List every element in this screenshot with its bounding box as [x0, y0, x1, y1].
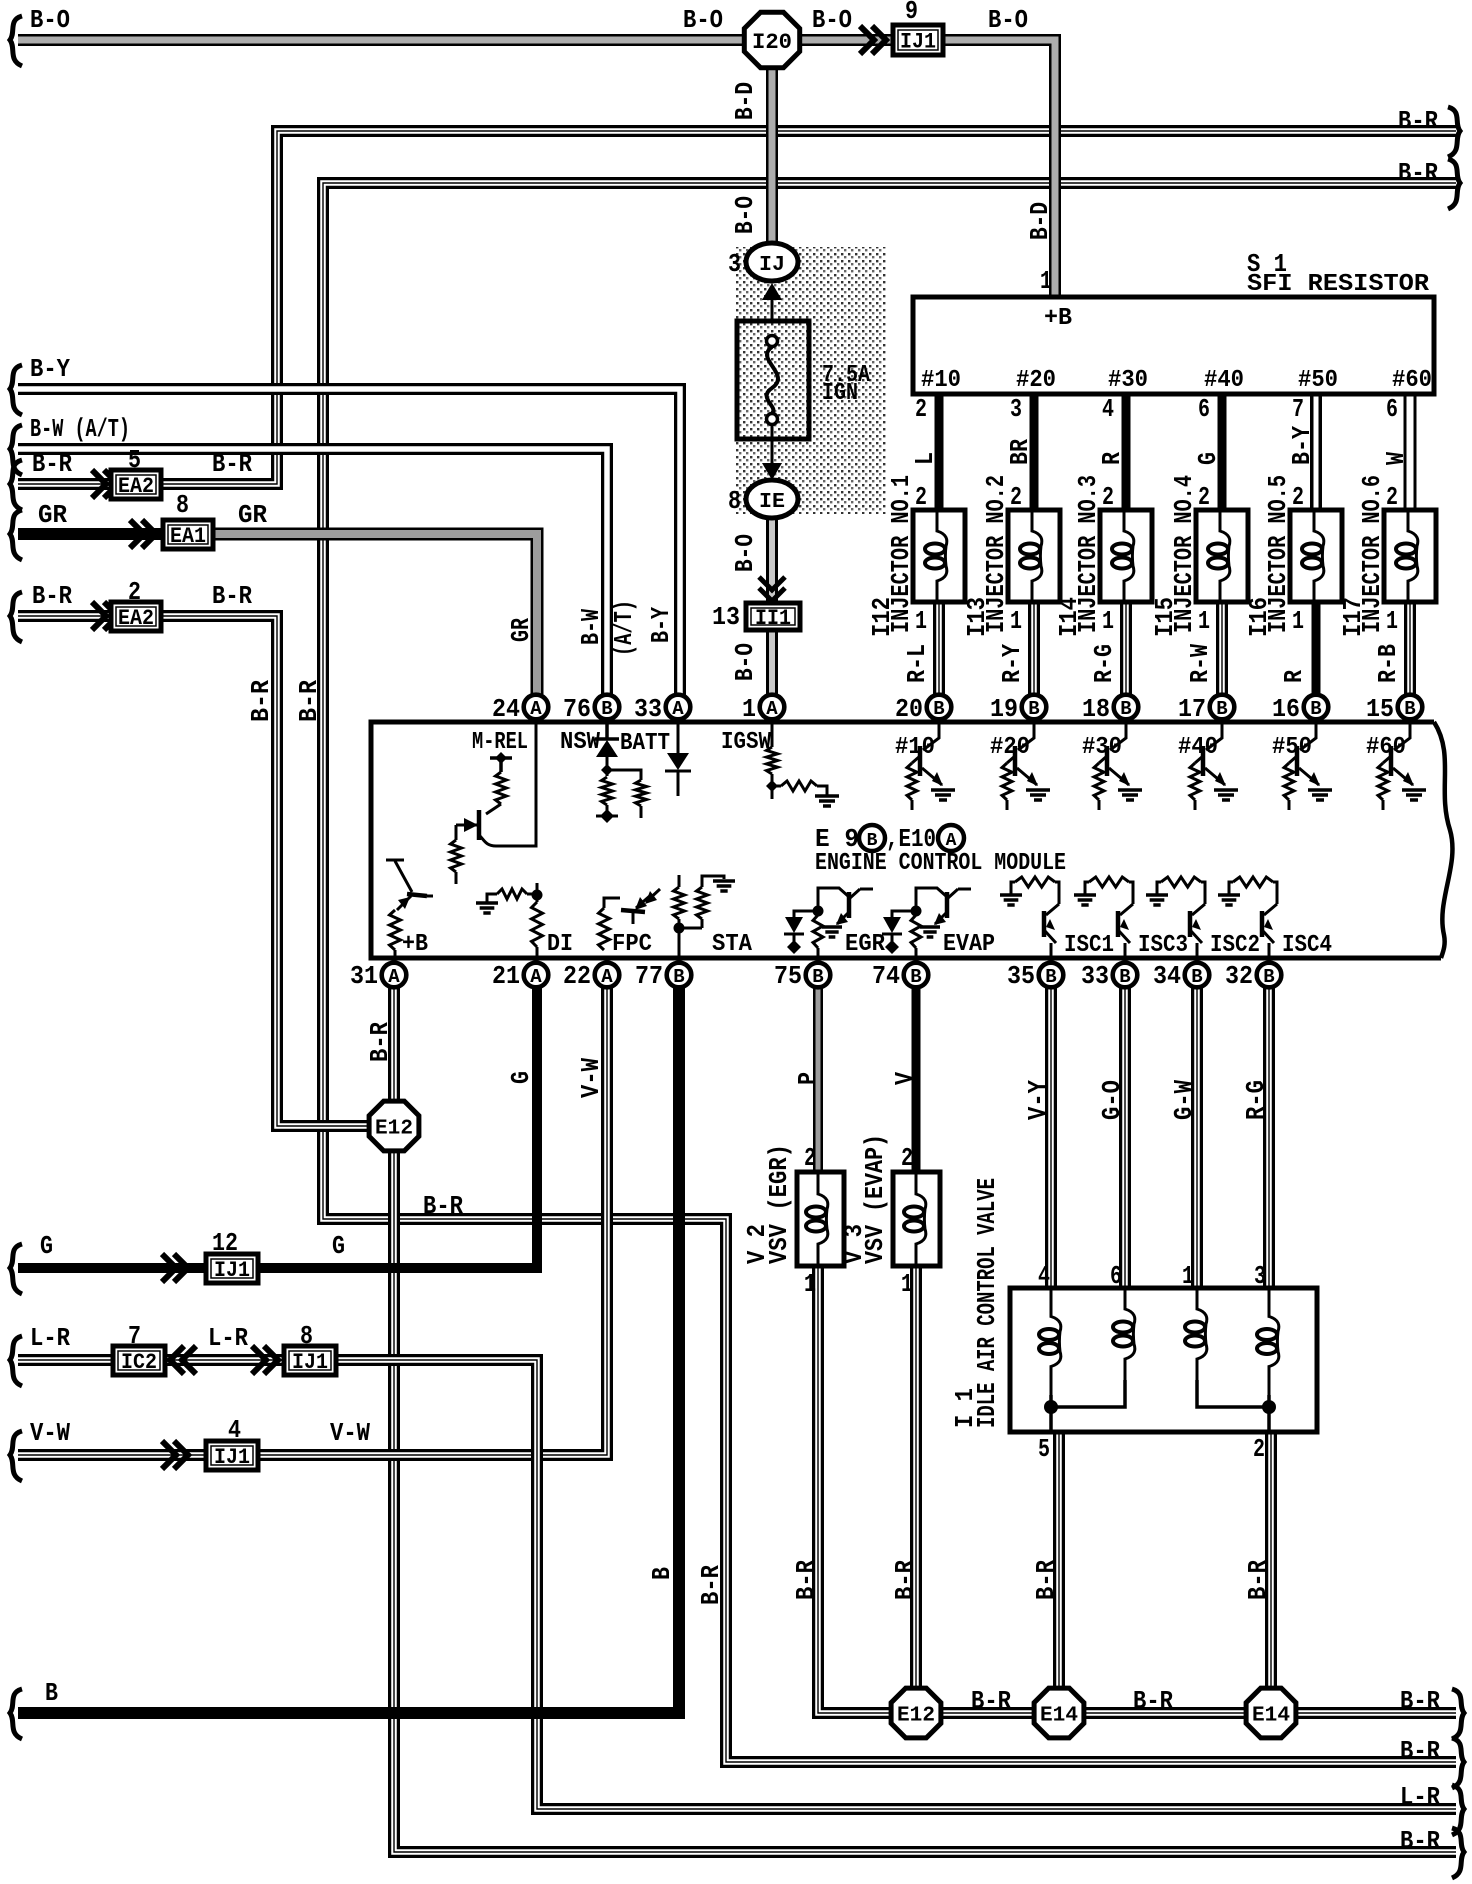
svg-text:INJECTOR NO.4: INJECTOR NO.4	[1169, 475, 1199, 633]
svg-text:G: G	[40, 1231, 53, 1261]
splice E14 (left)	[1034, 1688, 1084, 1738]
svg-text:+B: +B	[402, 931, 428, 958]
svg-text:B-R: B-R	[1243, 1560, 1273, 1600]
svg-text:EA1: EA1	[170, 524, 206, 549]
svg-text:EA2: EA2	[118, 474, 154, 499]
svg-text:B-R: B-R	[1400, 1826, 1440, 1856]
svg-text:2: 2	[1253, 1434, 1265, 1464]
svg-text:33: 33	[634, 694, 662, 724]
svg-text:B: B	[1263, 966, 1274, 988]
svg-text:R-G: R-G	[1241, 1080, 1271, 1120]
svg-text:INJECTOR NO.2: INJECTOR NO.2	[981, 475, 1011, 633]
svg-text:#10: #10	[895, 734, 935, 761]
svg-text:A: A	[530, 698, 542, 720]
connector tail G	[10, 1244, 22, 1294]
svg-text:B-R: B-R	[791, 1560, 821, 1600]
wire R-G injector no.3 to ECM pin 18	[1120, 602, 1132, 697]
svg-text:1: 1	[1292, 606, 1304, 636]
svg-text:#50: #50	[1272, 734, 1312, 761]
svg-text:IJ1: IJ1	[900, 30, 936, 55]
wire R-W injector no.4 to ECM pin 17	[1216, 602, 1228, 697]
wire L injector no.1 feed	[935, 394, 944, 510]
svg-text:B: B	[647, 1567, 677, 1580]
svg-text:2: 2	[915, 394, 927, 424]
svg-text:+B: +B	[1044, 305, 1072, 332]
arrow into IJ1 no.9	[860, 26, 886, 54]
svg-text:B: B	[1216, 698, 1227, 720]
svg-text:35: 35	[1007, 961, 1035, 991]
svg-text:1: 1	[1198, 606, 1210, 636]
svg-text:IGN: IGN	[822, 380, 858, 407]
svg-text:B: B	[1191, 966, 1202, 988]
svg-text:A: A	[601, 966, 613, 988]
svg-text:P: P	[793, 1072, 823, 1085]
svg-text:1: 1	[1102, 606, 1114, 636]
svg-text:1: 1	[804, 1269, 816, 1299]
svg-text:B: B	[1045, 966, 1056, 988]
svg-text:15: 15	[1366, 694, 1394, 724]
svg-text:1: 1	[742, 694, 756, 724]
svg-text:3: 3	[1010, 394, 1022, 424]
svg-text:7: 7	[1292, 394, 1304, 424]
svg-text:A: A	[530, 966, 542, 988]
svg-text:G-W: G-W	[1169, 1080, 1199, 1120]
svg-text:E12: E12	[897, 1705, 935, 1728]
svg-text:77: 77	[635, 961, 663, 991]
svg-text:24: 24	[492, 694, 520, 724]
IACV coil 4	[1269, 1288, 1279, 1395]
svg-text:1: 1	[1386, 606, 1398, 636]
wire V-W from ECM pin 22 to IJ1 no.4	[18, 1449, 206, 1461]
svg-text:B: B	[933, 698, 944, 720]
svg-text:22: 22	[563, 961, 591, 991]
svg-text:INJECTOR NO.5: INJECTOR NO.5	[1263, 475, 1293, 633]
double arrow into II1	[759, 577, 785, 601]
shaded region around IGN fuse	[736, 247, 886, 514]
wire B-R from IACV pin 5 into E14 splice	[1053, 1431, 1065, 1688]
svg-text:B: B	[867, 831, 878, 851]
ECM internal: BATT diode	[677, 724, 680, 753]
wire B-R from ECM pin 31 through E12 to bottom edge	[394, 986, 1456, 1852]
svg-text:R: R	[1097, 452, 1127, 465]
svg-text:B-R: B-R	[212, 449, 252, 479]
svg-text:V-W: V-W	[30, 1418, 70, 1448]
svg-text:B: B	[45, 1678, 58, 1708]
svg-text:13: 13	[712, 602, 740, 632]
svg-text:B-R: B-R	[971, 1686, 1011, 1716]
svg-text:ISC1: ISC1	[1064, 932, 1114, 959]
wire B-R top line 2 (right edge, down left side, to bottom B-R)	[323, 183, 1456, 1762]
wire B-R top line 1 (right edge to EA2 no.5)	[161, 131, 1456, 484]
svg-text:B-R: B-R	[1031, 1560, 1061, 1600]
svg-text:34: 34	[1153, 961, 1181, 991]
svg-text:#20: #20	[990, 734, 1030, 761]
svg-text:B-O: B-O	[812, 5, 852, 35]
wire R injector no.5 to ECM pin 16	[1312, 602, 1321, 697]
svg-text:IE: IE	[759, 491, 785, 514]
svg-text:V-Y: V-Y	[1023, 1080, 1053, 1120]
svg-text:8: 8	[176, 490, 189, 520]
svg-text:20: 20	[895, 694, 923, 724]
wire G-O ECM pin 33 to IACV pin 6	[1119, 986, 1131, 1288]
wire G injector no.4 feed	[1218, 394, 1227, 510]
svg-text:1: 1	[1010, 606, 1022, 636]
wire R injector no.3 feed	[1122, 394, 1131, 510]
svg-text:BR: BR	[1005, 439, 1035, 465]
svg-text:L-R: L-R	[30, 1323, 70, 1353]
wire L-R from IJ1 no.8 down to bottom L-R line	[18, 1354, 113, 1366]
svg-text:G: G	[1193, 452, 1223, 465]
svg-text:8: 8	[728, 486, 741, 516]
svg-text:IC2: IC2	[121, 1350, 157, 1375]
svg-text:IJ: IJ	[759, 254, 785, 277]
svg-text:17: 17	[1178, 694, 1206, 724]
svg-text:3: 3	[728, 249, 741, 279]
wire G from IJ1 no.12 up to ECM pin 21	[18, 1263, 206, 1273]
svg-text:B-O: B-O	[730, 643, 760, 681]
svg-text:INJECTOR NO.1: INJECTOR NO.1	[886, 475, 916, 633]
svg-text:31: 31	[350, 961, 378, 991]
svg-text:B-R: B-R	[212, 581, 252, 611]
injector no.1 I12	[913, 510, 965, 602]
connector tail B-R row 3	[10, 460, 22, 510]
svg-text:#60: #60	[1392, 367, 1432, 394]
wire P from ECM pin 75 to VSV EGR	[813, 986, 823, 1172]
svg-text:G: G	[332, 1231, 345, 1261]
svg-text:IDLE AIR CONTROL VALVE: IDLE AIR CONTROL VALVE	[972, 1178, 1002, 1428]
wire B bottom run to ECM pin 77	[18, 986, 679, 1713]
svg-text:2: 2	[804, 1143, 816, 1173]
wire B-O top run from left through I20 and IJ1 no.9 down to SFI resistor +B	[18, 34, 745, 46]
svg-text:GR: GR	[506, 618, 536, 642]
wire B-R from VSV EGR to E12 splice	[818, 1266, 891, 1713]
svg-text:B-R: B-R	[890, 1560, 920, 1600]
svg-text:#30: #30	[1108, 367, 1148, 394]
svg-text:NSW: NSW	[560, 729, 601, 756]
svg-text:B-W: B-W	[576, 609, 606, 645]
injector no.6 I17	[1384, 510, 1436, 602]
svg-text:B-D: B-D	[1025, 202, 1055, 240]
connector tail B-O top left	[10, 16, 22, 66]
splice E14 (right)	[1246, 1688, 1296, 1738]
svg-text:#60: #60	[1366, 734, 1406, 761]
wire G-W ECM pin 34 to IACV pin 1	[1191, 986, 1203, 1288]
svg-text:18: 18	[1082, 694, 1110, 724]
svg-text:SFI RESISTOR: SFI RESISTOR	[1247, 271, 1430, 298]
svg-text:B-R: B-R	[32, 449, 72, 479]
svg-text:EA2: EA2	[118, 606, 154, 631]
fuse 7.5A IGN box	[737, 321, 809, 439]
engine control module box	[371, 722, 1441, 958]
svg-text:B-O: B-O	[730, 534, 760, 572]
svg-text:ENGINE CONTROL MODULE: ENGINE CONTROL MODULE	[815, 850, 1066, 877]
svg-text:B-R: B-R	[294, 680, 324, 722]
wire R-G ECM pin 32 to IACV pin 3	[1263, 986, 1275, 1288]
svg-text:L-R: L-R	[208, 1323, 248, 1353]
wire V-Y ECM pin 35 to IACV pin 4	[1045, 986, 1057, 1288]
svg-text:EGR: EGR	[845, 931, 886, 958]
wire W injector no.6 feed	[1404, 394, 1417, 510]
svg-text:75: 75	[774, 961, 802, 991]
svg-text:GR: GR	[38, 500, 67, 530]
svg-text:B-O: B-O	[988, 5, 1028, 35]
connector tail GR	[10, 510, 22, 560]
wire B-R from EA2 no.2 down to E12 splice	[18, 610, 111, 622]
wire B-O from IE junction down through II1 to ECM pin 1 IGSW	[766, 517, 778, 697]
injector no.4 I15	[1196, 510, 1248, 602]
svg-text:B-O: B-O	[683, 5, 723, 35]
svg-text:B-Y: B-Y	[1287, 426, 1317, 465]
injector no.2 I13	[1008, 510, 1060, 602]
svg-text:B-R: B-R	[1398, 106, 1438, 136]
svg-text:G-O: G-O	[1097, 1080, 1127, 1120]
svg-text:B-R: B-R	[423, 1191, 463, 1221]
svg-text:R-L: R-L	[902, 644, 932, 683]
IACV coil 2	[1125, 1288, 1135, 1380]
svg-text:B-Y: B-Y	[646, 607, 676, 643]
svg-text:5: 5	[1038, 1434, 1050, 1464]
svg-text:76: 76	[563, 694, 591, 724]
splice E12 (left)	[369, 1101, 419, 1151]
injector no.5 I16	[1290, 510, 1342, 602]
splice E12 (bottom)	[891, 1688, 941, 1738]
splice I20	[744, 12, 799, 67]
wire R-Y injector no.2 to ECM pin 19	[1028, 602, 1040, 697]
wire B-Y injector no.5 feed	[1310, 394, 1322, 510]
svg-text:2: 2	[901, 1143, 913, 1173]
svg-text:L-R: L-R	[1400, 1782, 1440, 1812]
svg-text:INJECTOR NO.3: INJECTOR NO.3	[1073, 475, 1103, 633]
svg-text:L: L	[910, 452, 940, 465]
svg-text:IGSW: IGSW	[721, 729, 772, 756]
arrow into IJ1 no.8	[252, 1346, 278, 1374]
svg-text:IJ1: IJ1	[292, 1350, 328, 1375]
svg-text:B-Y: B-Y	[30, 354, 70, 384]
svg-text:R: R	[1279, 670, 1309, 683]
svg-text:E12: E12	[375, 1118, 413, 1141]
wire B-R between E12 and E14 splices and to right edge	[941, 1707, 1034, 1719]
svg-text:#10: #10	[921, 367, 961, 394]
arrow down above IE	[762, 463, 782, 480]
svg-text:STA: STA	[712, 931, 753, 958]
svg-text:BATT: BATT	[620, 730, 670, 757]
svg-text:B-R: B-R	[1400, 1736, 1440, 1766]
svg-text:19: 19	[990, 694, 1018, 724]
svg-text:32: 32	[1225, 961, 1253, 991]
svg-text:V-W: V-W	[330, 1418, 370, 1448]
svg-text:A: A	[672, 698, 684, 720]
fuse element	[767, 336, 778, 347]
svg-text:A: A	[946, 831, 957, 851]
arrow into EA2 no.5	[92, 470, 118, 498]
connector tail B	[10, 1689, 22, 1739]
IACV coil 3	[1197, 1288, 1207, 1380]
svg-text:#50: #50	[1298, 367, 1338, 394]
svg-text:DI: DI	[547, 931, 573, 958]
svg-text:B-R: B-R	[1133, 1686, 1173, 1716]
svg-text:1: 1	[901, 1269, 913, 1299]
wire B-Y (left to ECM pin 33 BATT)	[18, 389, 680, 697]
svg-text:33: 33	[1081, 961, 1109, 991]
svg-text:B-R: B-R	[365, 1022, 395, 1062]
svg-text:B: B	[1404, 698, 1415, 720]
svg-text:B-O: B-O	[30, 5, 70, 35]
wire R-B injector no.6 to ECM pin 15	[1404, 602, 1416, 697]
svg-text:B: B	[1120, 698, 1131, 720]
svg-text:#30: #30	[1082, 734, 1122, 761]
svg-text:B-R: B-R	[1398, 158, 1438, 188]
svg-text:II1: II1	[755, 606, 791, 631]
svg-text:R-Y: R-Y	[997, 644, 1027, 683]
svg-text:A: A	[388, 966, 400, 988]
svg-text:#20: #20	[1016, 367, 1056, 394]
arrow up below IJ	[762, 283, 782, 300]
arrow into IJ1 no.12	[162, 1254, 188, 1282]
svg-text:GR: GR	[238, 500, 267, 530]
svg-text:ISC2: ISC2	[1210, 932, 1260, 959]
svg-text:1: 1	[915, 606, 927, 636]
svg-text:4: 4	[1102, 394, 1114, 424]
svg-text:R-W: R-W	[1185, 644, 1215, 683]
svg-text:(A/T): (A/T)	[609, 600, 639, 656]
arrow out of IC2	[170, 1346, 196, 1374]
arrow into IJ1 no.4	[162, 1441, 188, 1469]
wire GR from EA1 to ECM pin 24 M-REL	[18, 528, 165, 540]
svg-text:B-R: B-R	[32, 581, 72, 611]
svg-text:IJ1: IJ1	[214, 1445, 250, 1470]
svg-text:B-D: B-D	[730, 82, 760, 120]
connector tail V-W	[10, 1431, 22, 1481]
wire B-W (A/T) (left to ECM pin 76 NSW)	[18, 449, 607, 697]
svg-text:FPC: FPC	[612, 931, 652, 958]
svg-text:B: B	[1119, 966, 1130, 988]
svg-text:16: 16	[1272, 694, 1300, 724]
connector tail B-W (A/T)	[10, 425, 22, 475]
IACV coil 1	[1051, 1288, 1061, 1395]
connector tail B-R row 5	[10, 592, 22, 642]
svg-text:21: 21	[492, 961, 520, 991]
svg-text:VSV (EVAP): VSV (EVAP)	[860, 1134, 890, 1264]
svg-text:B-R: B-R	[696, 1565, 726, 1605]
arrow into EA2 no.2	[92, 602, 118, 630]
svg-text:VSV (EGR): VSV (EGR)	[764, 1144, 794, 1264]
svg-text:B-R: B-R	[246, 680, 276, 722]
svg-text:#40: #40	[1204, 367, 1244, 394]
svg-text:R-G: R-G	[1089, 644, 1119, 683]
svg-text:B-O: B-O	[730, 196, 760, 234]
svg-text:74: 74	[872, 961, 900, 991]
svg-text:V: V	[890, 1072, 920, 1085]
wire B-R stub from left into EA2 no.5	[18, 478, 111, 490]
svg-text:I20: I20	[752, 30, 792, 55]
wire R-L injector no.1 to ECM pin 20	[933, 602, 945, 697]
arrow into EA1 no.8	[130, 520, 156, 548]
svg-text:W: W	[1381, 452, 1411, 465]
svg-text:B: B	[910, 966, 921, 988]
injector no.3 I14	[1100, 510, 1152, 602]
svg-text:6: 6	[1198, 394, 1210, 424]
connector tail B-Y	[10, 365, 22, 415]
svg-text:EVAP: EVAP	[943, 931, 995, 958]
svg-text:B: B	[601, 698, 612, 720]
svg-text:A: A	[766, 698, 778, 720]
svg-text:INJECTOR NO.6: INJECTOR NO.6	[1357, 475, 1387, 633]
svg-text:B: B	[812, 966, 823, 988]
svg-text:B-R: B-R	[1400, 1686, 1440, 1716]
svg-text:ISC4: ISC4	[1282, 932, 1332, 959]
svg-text:B: B	[1028, 698, 1039, 720]
IACV internal links	[1051, 1380, 1125, 1432]
svg-text:IJ1: IJ1	[214, 1258, 250, 1283]
wire V from ECM pin 74 to VSV EVAP	[912, 986, 921, 1172]
svg-text:R-B: R-B	[1373, 644, 1403, 683]
svg-text:6: 6	[1386, 394, 1398, 424]
svg-text:B: B	[673, 966, 684, 988]
svg-text:G: G	[506, 1071, 536, 1084]
wire B-O from I20 splice down to IJ junction	[766, 67, 778, 244]
svg-text:B-W (A/T): B-W (A/T)	[30, 414, 130, 444]
svg-text:E14: E14	[1252, 1705, 1290, 1728]
svg-text:1: 1	[1040, 266, 1052, 296]
svg-text:V-W: V-W	[576, 1058, 606, 1098]
svg-text:E14: E14	[1040, 1705, 1078, 1728]
wire B-R from VSV EVAP into E12 splice	[910, 1266, 922, 1688]
svg-text:9: 9	[905, 0, 918, 26]
svg-text:M-REL: M-REL	[472, 729, 528, 756]
connector tail L-R	[10, 1336, 22, 1386]
wire B-R from IACV pin 2 into E14 splice	[1265, 1431, 1277, 1688]
svg-text:ISC3: ISC3	[1138, 932, 1188, 959]
svg-text:B: B	[1310, 698, 1321, 720]
wire BR injector no.2 feed	[1030, 394, 1039, 510]
svg-text:#40: #40	[1178, 734, 1218, 761]
